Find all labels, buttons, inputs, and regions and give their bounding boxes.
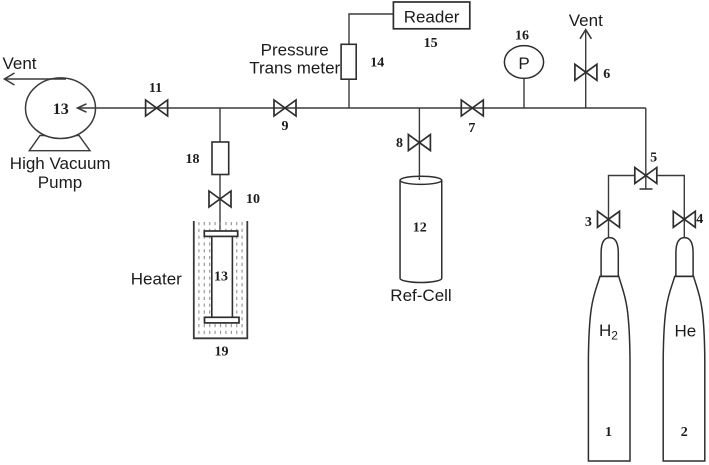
svg-text:5: 5 [650,151,657,166]
svg-text:6: 6 [603,67,610,82]
svg-text:11: 11 [149,81,162,96]
svg-text:P: P [518,54,529,73]
svg-text:10: 10 [246,192,260,207]
svg-text:16: 16 [515,29,529,44]
svg-text:19: 19 [215,345,229,360]
svg-text:Vent: Vent [569,11,603,30]
svg-text:9: 9 [282,119,289,134]
svg-text:15: 15 [424,36,438,51]
svg-text:Heater: Heater [131,270,182,289]
svg-text:8: 8 [396,136,403,151]
svg-text:He: He [675,322,697,341]
svg-text:Trans meter: Trans meter [249,58,340,77]
svg-text:Reader: Reader [404,7,460,26]
svg-text:14: 14 [370,56,384,71]
svg-text:13: 13 [214,270,228,285]
svg-text:Ref-Cell: Ref-Cell [390,286,451,305]
svg-text:High Vacuum: High Vacuum [10,154,111,173]
svg-text:7: 7 [468,121,475,136]
svg-text:Vent: Vent [2,54,36,73]
svg-text:12: 12 [413,221,427,236]
svg-text:18: 18 [186,152,200,167]
svg-text:Pump: Pump [38,173,82,192]
svg-text:4: 4 [696,212,703,227]
svg-text:Pressure: Pressure [261,41,329,60]
svg-text:3: 3 [585,215,592,230]
svg-text:13: 13 [53,101,69,118]
svg-text:2: 2 [681,425,688,440]
svg-text:1: 1 [605,425,612,440]
